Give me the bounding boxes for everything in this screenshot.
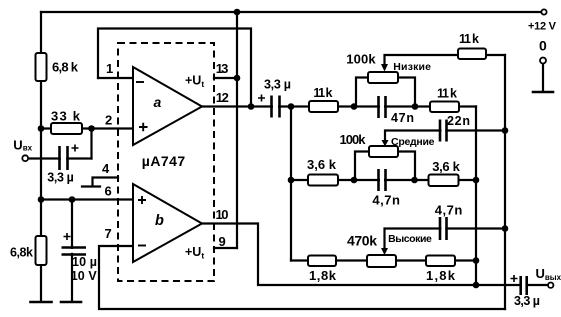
capacitor C4 47n low — [379, 95, 386, 118]
op-amp a plus sign — [139, 123, 148, 132]
wire low pot left lead — [356, 78, 368, 107]
svg-text:3,3 µ: 3,3 µ — [514, 294, 540, 308]
svg-text:11 k: 11 k — [313, 86, 332, 100]
wire 10u branch — [71, 200, 73, 302]
svg-text:1: 1 — [106, 61, 113, 76]
junction low band / pot left lead — [351, 103, 358, 110]
wire high band row — [291, 259, 476, 261]
wire +Ut supply bus — [236, 12, 238, 248]
wire op-amp a feedback loop box — [98, 29, 251, 107]
svg-text:0: 0 — [539, 38, 547, 54]
junction input bus / mid band — [288, 177, 295, 184]
wire pin 9 stub — [214, 247, 237, 249]
ground pin 4 — [82, 185, 100, 187]
ground 10u — [61, 301, 81, 304]
capacitor C6 4.7n mid — [379, 168, 386, 192]
wire pin 13 stub — [214, 77, 237, 79]
resistor R13 1.8k high right — [426, 256, 455, 267]
junction pin 6 wire / C2 — [69, 196, 76, 203]
wire right band bus — [475, 107, 477, 286]
junction mid band / pot right lead — [411, 177, 418, 184]
wire low pot wiper to 11k feedback — [385, 55, 506, 65]
node A tone input bus top — [288, 103, 295, 110]
resistor R3 6.8k bottom — [36, 236, 47, 265]
capacitor C7 4.7n high — [440, 217, 447, 241]
svg-text:b: b — [155, 213, 164, 229]
op-amp U1a triangle — [133, 67, 202, 145]
wire input node up — [90, 129, 92, 159]
svg-text:3,6 k: 3,6 k — [307, 157, 337, 172]
wire +12V top rail — [41, 11, 541, 13]
wire pin 1 stub — [98, 77, 133, 79]
svg-text:Высокие: Высокие — [388, 233, 432, 245]
svg-text:2: 2 — [105, 113, 112, 128]
capacitor C5 22n — [440, 119, 447, 143]
capacitor C2 10u/10V — [60, 233, 86, 255]
svg-text:µA747: µA747 — [142, 153, 186, 169]
svg-text:6,8k: 6,8k — [10, 246, 33, 260]
svg-text:6,8 k: 6,8 k — [52, 60, 79, 75]
junction right bus / output bus — [473, 282, 480, 289]
wire 0 terminal to ground — [542, 64, 544, 92]
junction high band / right bus — [473, 257, 480, 264]
IC U1 uA747 dashed box — [118, 43, 214, 281]
wire low pot right lead — [398, 78, 415, 107]
resistor R1 6.8k top — [36, 53, 47, 81]
wire mid band row — [291, 179, 476, 181]
svg-text:11 k: 11 k — [459, 32, 479, 46]
resistor R7 11k feedback top — [458, 49, 486, 60]
junction +12V rail / +Ut bus — [234, 9, 241, 16]
svg-text:4,7n: 4,7n — [435, 203, 463, 218]
svg-text:100k: 100k — [346, 52, 376, 67]
svg-text:13: 13 — [216, 61, 229, 76]
junction mid band / right bus — [473, 177, 480, 184]
svg-text:10 V: 10 V — [71, 269, 98, 283]
svg-text:100k: 100k — [340, 132, 367, 147]
svg-text:7: 7 — [105, 226, 112, 241]
junction pin 2 node — [88, 125, 95, 132]
svg-text:Средние: Средние — [391, 136, 435, 148]
ground right — [533, 91, 553, 94]
svg-text:+12 V: +12 V — [528, 20, 557, 32]
wire op-amp b output to output bus — [202, 224, 548, 286]
junction pin 13 / +Ut bus — [234, 75, 241, 82]
wiper arrow high pot R12 — [381, 248, 388, 255]
resistor R8 3.6k mid left — [308, 175, 338, 186]
junction mid band / pot left lead — [351, 177, 358, 184]
wire mid pot right lead — [398, 152, 415, 181]
op-amp a minus sign — [136, 81, 144, 83]
svg-text:33 k: 33 k — [51, 109, 81, 124]
resistor R6 11k low right — [430, 102, 459, 113]
svg-text:1,8k: 1,8k — [309, 268, 337, 283]
wire pin 4 stub to ground — [93, 178, 119, 187]
junction bias divider / pin 6 wire — [38, 196, 45, 203]
junction 22n wire / feedback bus — [502, 127, 509, 134]
junction 4.7n wire / feedback bus — [502, 225, 509, 232]
junction bias divider / 33k — [38, 125, 45, 132]
wire mid pot left lead — [355, 152, 369, 181]
svg-text:11 k: 11 k — [437, 87, 457, 101]
capacitor C1 3.3u input — [60, 145, 79, 172]
capacitor C8 3.3u output — [511, 275, 527, 297]
svg-text:22n: 22n — [447, 114, 470, 128]
op-amp b minus sign — [138, 245, 146, 247]
wire 33k row to pin 2 — [41, 127, 133, 129]
terminal +12V — [541, 9, 546, 14]
resistor R11 1.8k high left — [308, 256, 336, 267]
svg-text:4,7n: 4,7n — [372, 193, 400, 208]
svg-text:10: 10 — [216, 207, 229, 222]
svg-text:12: 12 — [216, 90, 229, 105]
resistor R10 3.6k mid right — [429, 175, 459, 187]
op-amp b plus sign — [138, 196, 146, 204]
capacitor C3 3.3u coupling — [258, 95, 280, 120]
svg-text:Низкие: Низкие — [393, 61, 431, 73]
wire left bias rail — [40, 12, 42, 301]
svg-text:3,3 µ: 3,3 µ — [47, 171, 74, 185]
wiper arrow mid pot R9 — [382, 140, 389, 147]
terminal Uin — [22, 155, 28, 161]
wire mid pot wiper to 22n row — [385, 131, 505, 142]
svg-text:6: 6 — [105, 184, 112, 199]
potentiometer R12 470k high — [367, 255, 396, 267]
wire pin 6 row — [41, 198, 133, 200]
wire left band bus — [290, 107, 292, 261]
svg-text:3,6 k: 3,6 k — [432, 159, 460, 174]
potentiometer R5 100k low — [368, 72, 398, 83]
svg-text:47n: 47n — [391, 111, 414, 125]
potentiometer R9 100k mid — [369, 146, 398, 157]
wiper arrow low pot R5 — [381, 64, 388, 72]
wire feedback bus vertical — [504, 55, 506, 309]
wire high pot wiper to 4.7n row — [385, 229, 506, 249]
wire pin 7 to bottom feedback bus — [99, 246, 505, 309]
resistor R4 11k low left — [309, 101, 338, 112]
svg-text:470k: 470k — [347, 233, 377, 249]
svg-text:3,3 µ: 3,3 µ — [264, 78, 291, 92]
op-amp U1b triangle — [133, 184, 202, 262]
svg-text:10 µ: 10 µ — [72, 255, 97, 269]
svg-text:4: 4 — [102, 161, 110, 176]
svg-text:9: 9 — [219, 234, 226, 249]
resistor R2 33k — [51, 123, 82, 134]
ground left 6.8k — [31, 301, 52, 304]
svg-text:a: a — [154, 94, 162, 110]
junction low band / pot right lead — [412, 103, 419, 110]
terminal Uout — [548, 283, 553, 288]
terminal 0 — [540, 58, 546, 64]
wire input row — [28, 157, 92, 159]
junction op-amp a output / feedback loop — [248, 103, 255, 110]
svg-text:1,8k: 1,8k — [426, 268, 456, 283]
wire op-amp a output row — [202, 105, 476, 107]
